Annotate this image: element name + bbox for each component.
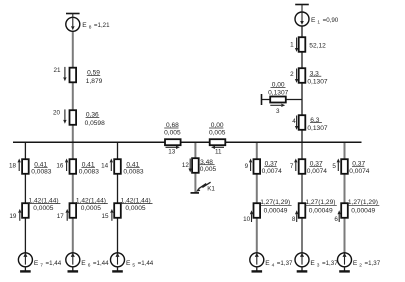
source E5 (111, 253, 125, 267)
value 0,41/0,0083 (31, 161, 52, 175)
svg-text:E: E (310, 260, 315, 267)
svg-text:6: 6 (334, 216, 338, 223)
arrow 13 (right) (166, 146, 180, 149)
svg-text:5: 5 (132, 263, 135, 269)
svg-text:13: 13 (168, 149, 176, 156)
svg-text:E: E (311, 17, 316, 24)
impedance 8 (299, 203, 306, 218)
designator 13 (168, 149, 176, 156)
svg-text:0,005: 0,005 (209, 130, 226, 137)
label E1 =0,90 (311, 17, 339, 26)
value 0,37/0,0074 (349, 161, 370, 175)
svg-text:1: 1 (317, 20, 320, 26)
source E6 (66, 253, 80, 267)
value 1,27(1,29)/0,00049 (305, 199, 337, 214)
svg-text:6: 6 (88, 263, 91, 269)
source E1 (295, 5, 309, 27)
svg-text:0,1307: 0,1307 (307, 125, 328, 132)
svg-text:0,0083: 0,0083 (123, 169, 144, 176)
impedance 4 (299, 115, 306, 130)
source E8 (66, 14, 80, 32)
source E2 (338, 253, 352, 267)
wire: gray through-line chain E8-21-20-bus-16-17-E6 (72, 31, 74, 253)
impedance 15 (114, 203, 121, 218)
value 0,00/0,1307 (268, 82, 289, 97)
impedance 20 (70, 110, 77, 125)
svg-text:0,0005: 0,0005 (81, 205, 102, 212)
value 0,41/0,0083 (123, 161, 144, 175)
wire: black branch bus-14-15-E5 (117, 142, 119, 253)
impedance 21 (70, 68, 77, 83)
svg-text:E: E (81, 260, 86, 267)
designator 11 (215, 148, 222, 155)
label E3 =1,37 (310, 260, 338, 269)
ground E5 (112, 270, 123, 272)
source E7 (18, 253, 32, 267)
wire: black branch bus-18-19-E7 (24, 142, 26, 253)
svg-text:E: E (265, 260, 270, 267)
svg-text:0,0083: 0,0083 (79, 169, 100, 176)
svg-text:8: 8 (89, 25, 92, 31)
value 0,36/0,0598 (85, 112, 106, 128)
svg-text:0,0005: 0,0005 (125, 205, 146, 212)
svg-text:15: 15 (101, 213, 109, 220)
svg-text:14: 14 (101, 163, 109, 170)
svg-text:17: 17 (57, 213, 65, 220)
wire: stub E5 to ground (117, 267, 119, 271)
svg-text:0,00049: 0,00049 (309, 207, 333, 214)
svg-text:8: 8 (292, 216, 296, 223)
impedance 1 (299, 37, 306, 52)
wire: stub E7 to ground (24, 267, 26, 271)
svg-text:0,0074: 0,0074 (307, 168, 328, 175)
ground E2 (339, 270, 350, 272)
impedance 7 (299, 159, 306, 174)
ground E4 (252, 270, 263, 272)
arrow 16 (up) (65, 159, 68, 172)
svg-text:19: 19 (9, 213, 17, 220)
svg-text:0,0074: 0,0074 (262, 168, 283, 175)
label E8 =1,21 (82, 22, 110, 31)
designator 6 (334, 216, 338, 223)
svg-text:2: 2 (290, 71, 294, 78)
svg-text:0,0074: 0,0074 (349, 168, 370, 175)
arrow 5 (up) (337, 159, 340, 172)
designator 8 (292, 216, 296, 223)
impedance 14 (114, 159, 121, 174)
designator 17 (57, 213, 65, 220)
svg-text:0,0598: 0,0598 (85, 120, 106, 127)
arrow 20 (down) (63, 109, 66, 123)
value 0,00/0,005 (209, 122, 226, 136)
value 1,27(1,29)/0,00049 (260, 199, 292, 214)
designator 18 (9, 163, 17, 170)
svg-text:5: 5 (332, 163, 336, 170)
svg-text:4: 4 (292, 118, 296, 125)
value 6,3/0,1307 (307, 117, 328, 132)
wire: gray branch bus-5-6-E2 (344, 142, 346, 253)
svg-text:=1,21: =1,21 (94, 22, 110, 29)
svg-text:12: 12 (182, 162, 190, 169)
terminal bar above source E8 (66, 13, 80, 15)
svg-text:=0,90: =0,90 (323, 17, 339, 24)
svg-text:0,1307: 0,1307 (307, 79, 328, 86)
value 0,68/0,005 (164, 122, 181, 136)
designator 20 (53, 110, 61, 117)
impedance 6 (341, 203, 348, 218)
impedance 5 (341, 159, 348, 174)
svg-text:10: 10 (243, 216, 251, 223)
impedance 19 (22, 203, 29, 218)
arrow 3 (right) (270, 104, 285, 107)
arrow 1 (down) (295, 38, 298, 52)
svg-text:0,00049: 0,00049 (264, 207, 288, 214)
ground E3 (297, 270, 308, 272)
fault terminal bar (191, 192, 200, 194)
designator 21 (53, 67, 61, 74)
wire: gray branch bus to fault K1 (194, 142, 196, 193)
svg-text:0,00049: 0,00049 (351, 207, 375, 214)
impedance 2 (299, 68, 306, 83)
arrow 2 (down) (295, 69, 298, 83)
terminal bar above source E1 (295, 4, 309, 6)
label E5 =1,44 (126, 260, 154, 269)
value 0,37/0,0074 (307, 161, 328, 175)
wire: stub E6 to ground (72, 267, 74, 271)
impedance 13 (165, 139, 181, 145)
svg-text:18: 18 (9, 163, 17, 170)
wire: gray branch bus-9-10-E4 (256, 142, 258, 253)
svg-text:K1: K1 (207, 185, 215, 192)
svg-text:9: 9 (245, 163, 249, 170)
svg-text:=1,37: =1,37 (277, 260, 293, 267)
designator 4 (292, 118, 296, 125)
svg-text:E: E (353, 260, 358, 267)
designator 7 (290, 163, 294, 170)
svg-text:0,1307: 0,1307 (268, 90, 289, 97)
svg-text:=1,37: =1,37 (365, 260, 381, 267)
arrow 19 (up) (18, 209, 21, 221)
bus bar (horizontal network node) (13, 141, 362, 143)
arrow 8 (up) (295, 210, 298, 222)
svg-text:11: 11 (215, 148, 222, 155)
arrow 7 (up) (294, 159, 297, 172)
designator 3 (276, 108, 280, 115)
svg-text:21: 21 (53, 67, 61, 74)
impedance 16 (70, 159, 77, 174)
value 52,12 (309, 43, 326, 50)
value 0,59/1,879 (86, 70, 103, 85)
wire: branch 3 horizontal (262, 99, 303, 101)
svg-text:E: E (82, 22, 87, 29)
designator 2 (290, 71, 294, 78)
value 0,41/0,0083 (79, 161, 100, 175)
designator 19 (9, 213, 17, 220)
svg-text:16: 16 (56, 163, 64, 170)
arrow 17 (up) (66, 209, 69, 221)
label E7 =1,44 (34, 260, 62, 269)
svg-text:2: 2 (359, 263, 362, 269)
designator 10 (243, 216, 251, 223)
svg-text:=1,44: =1,44 (138, 260, 154, 267)
source E3 (295, 253, 309, 267)
wire: black chain E1-1-2-4 to bus (301, 26, 303, 142)
svg-text:0,0083: 0,0083 (31, 169, 52, 176)
ground E7 (20, 270, 31, 272)
wire: stub E4 to ground (256, 267, 258, 271)
svg-text:1,879: 1,879 (86, 78, 103, 85)
designator 9 (245, 163, 249, 170)
svg-text:0,005: 0,005 (200, 166, 217, 173)
terminal bar left of impedance 3 (261, 94, 263, 105)
arrow 11 (left) (211, 146, 224, 149)
label E6 =1,44 (81, 260, 109, 269)
svg-text:20: 20 (53, 110, 61, 117)
impedance 9 (254, 159, 261, 174)
label E2 =1,37 (353, 260, 381, 269)
arrow 18 (up) (18, 159, 21, 172)
designator 15 (101, 213, 109, 220)
fault K1 lightning arrow (196, 182, 211, 192)
designator 16 (56, 163, 64, 170)
arrow 4 (down) (295, 116, 298, 130)
impedance 17 (70, 203, 77, 218)
svg-text:3: 3 (276, 108, 280, 115)
designator 12 (182, 162, 190, 169)
value 0,37/0,0074 (262, 161, 283, 175)
source E4 (250, 253, 264, 267)
svg-text:7: 7 (40, 263, 43, 269)
value 3,3/0,1307 (307, 70, 328, 85)
designator 5 (332, 163, 336, 170)
ground E6 (68, 270, 79, 272)
label K1 (207, 185, 215, 192)
value 1,42(1,44)/0,0005 (120, 197, 152, 212)
arrow 6 (up) (338, 210, 341, 222)
svg-text:=1,37: =1,37 (322, 260, 338, 267)
svg-text:0,005: 0,005 (164, 130, 181, 137)
designator 1 (290, 42, 294, 49)
impedance 18 (22, 159, 29, 174)
svg-text:E: E (34, 260, 39, 267)
wire: stub E3 to ground (301, 267, 303, 271)
arrow 12 (down) (189, 159, 192, 173)
designator 14 (101, 163, 109, 170)
svg-text:=1,44: =1,44 (93, 260, 109, 267)
svg-text:4: 4 (272, 263, 275, 269)
svg-text:=1,44: =1,44 (46, 260, 62, 267)
arrow 9 (up) (249, 159, 252, 172)
value 1,27(1,29)/0,00049 (347, 199, 379, 214)
svg-text:1: 1 (290, 42, 294, 49)
impedance 3 (270, 97, 286, 103)
arrow 14 (up) (110, 159, 113, 172)
wire: stub E2 to ground (344, 267, 346, 271)
wire: gray branch bus-7-8-E3 (301, 142, 303, 253)
svg-text:0,0005: 0,0005 (33, 205, 54, 212)
svg-text:52,12: 52,12 (309, 43, 326, 50)
value 3,48/0,005 (200, 159, 217, 173)
svg-text:3: 3 (317, 263, 320, 269)
arrow 15 (up) (110, 209, 113, 221)
value 1,42(1,44)/0,0005 (75, 197, 107, 212)
impedance 12 (192, 158, 199, 173)
svg-text:E: E (126, 260, 131, 267)
arrow 21 (down) (63, 67, 66, 81)
impedance 10 (254, 203, 261, 218)
value 1,42(1,44)/0,0005 (28, 197, 60, 212)
arrow 10 (up) (250, 210, 253, 222)
impedance 11 (210, 139, 226, 145)
label E4 =1,37 (265, 260, 293, 269)
svg-text:7: 7 (290, 163, 294, 170)
